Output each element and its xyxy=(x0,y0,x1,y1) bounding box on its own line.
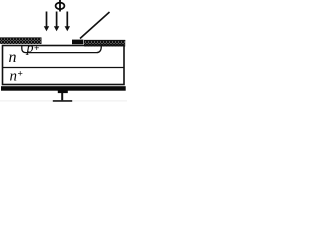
top metal contact (black) xyxy=(72,40,83,45)
incident light arrow 2 xyxy=(54,12,59,32)
bottom metal contact (black bar) xyxy=(1,86,126,91)
svg-text:p: p xyxy=(26,41,34,56)
pointer line to top contact xyxy=(80,12,110,39)
photon flux label Φ xyxy=(56,0,65,11)
svg-text:n: n xyxy=(10,69,18,85)
faint scan line xyxy=(0,100,127,101)
bottom terminal tab xyxy=(58,91,68,94)
anti-reflection coating left (hatched) xyxy=(0,38,42,45)
bottom terminal lead wire xyxy=(61,93,63,101)
n / n+ boundary xyxy=(3,67,125,69)
label p+ xyxy=(26,41,40,56)
svg-text:+: + xyxy=(18,70,23,80)
p+ well boundary xyxy=(22,46,102,53)
oxide layer right (hatched) xyxy=(84,40,125,47)
label n+ xyxy=(10,69,23,85)
incident light arrow 3 xyxy=(65,12,70,32)
incident light arrow 1 xyxy=(44,12,49,32)
svg-text:n: n xyxy=(9,49,17,66)
device body outline xyxy=(3,46,125,85)
terminal cross bar xyxy=(53,100,72,102)
svg-text:+: + xyxy=(34,44,39,54)
